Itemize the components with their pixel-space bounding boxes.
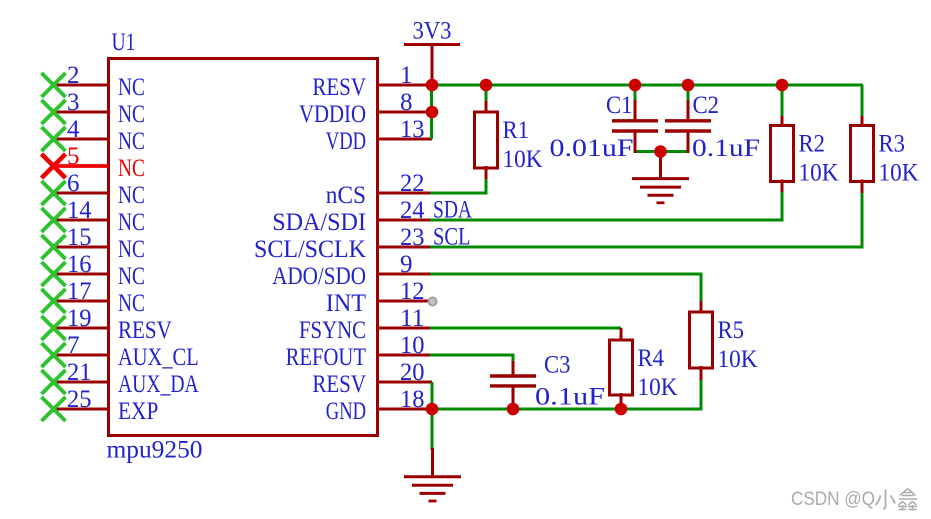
pin number 8 bbox=[400, 89, 413, 116]
label R3 bbox=[879, 131, 906, 158]
svg-text:SCL/SCLK: SCL/SCLK bbox=[254, 236, 366, 263]
resistor R4 body bbox=[610, 328, 633, 407]
pin number 20 bbox=[400, 359, 425, 386]
pin name NC bbox=[118, 101, 145, 128]
wire ADO/SDO row bbox=[430, 273, 703, 276]
svg-text:2: 2 bbox=[67, 62, 80, 89]
wire GND bottom rail bbox=[431, 408, 703, 411]
junction R2 top bbox=[776, 79, 789, 92]
no-connect X pin 5 bbox=[42, 154, 66, 178]
junction R1 top bbox=[480, 79, 493, 92]
value 10K (R5) bbox=[718, 346, 758, 373]
svg-text:NC: NC bbox=[118, 155, 145, 182]
junction C3 bottom bbox=[507, 403, 520, 416]
IC U1 mpu9250 body bbox=[109, 59, 378, 436]
svg-text:5: 5 bbox=[67, 143, 80, 170]
svg-text:VDD: VDD bbox=[326, 128, 366, 155]
svg-text:0.1uF: 0.1uF bbox=[692, 135, 760, 162]
label R4 bbox=[638, 345, 665, 372]
net label 3V3 bbox=[413, 18, 452, 45]
no-connect X pin 4 bbox=[42, 127, 66, 151]
pin 18 (GND) right wire bbox=[377, 408, 432, 411]
svg-text:3V3: 3V3 bbox=[413, 18, 452, 45]
svg-text:NC: NC bbox=[118, 128, 145, 155]
no-connect X pin 2 bbox=[42, 73, 66, 97]
watermark CSDN @Q bbox=[791, 488, 875, 510]
svg-text:7: 7 bbox=[67, 332, 80, 359]
pin number 12 bbox=[400, 278, 425, 305]
svg-text:10K: 10K bbox=[503, 146, 543, 173]
label C2 bbox=[693, 92, 720, 119]
no-connect X pin 25 bbox=[42, 397, 66, 421]
pin 1 (RESV) right wire bbox=[377, 84, 432, 87]
pin name NC bbox=[118, 209, 145, 236]
svg-text:6: 6 bbox=[67, 170, 80, 197]
pin 12 (INT) right wire bbox=[377, 300, 430, 303]
junction VDD at pin1 bbox=[426, 79, 439, 92]
svg-text:13: 13 bbox=[400, 116, 425, 143]
wire VDD top rail bbox=[431, 84, 863, 87]
pin number 24 bbox=[400, 197, 425, 224]
no-connect X pin 3 bbox=[42, 100, 66, 124]
pin number 19 bbox=[67, 305, 92, 332]
pin name RESV bbox=[118, 317, 172, 344]
capacitor C1 bbox=[612, 100, 658, 153]
pin number 3 bbox=[67, 89, 80, 116]
no-connect X pin 17 bbox=[42, 289, 66, 313]
svg-text:EXP: EXP bbox=[118, 398, 158, 425]
pin 14 (NC) left wire bbox=[52, 219, 108, 222]
wire REFOUT to C3 bbox=[430, 354, 515, 357]
label R2 bbox=[799, 131, 826, 158]
pin number 18 bbox=[400, 386, 425, 413]
svg-text:nCS: nCS bbox=[326, 182, 366, 209]
wire R1 top bbox=[485, 85, 488, 103]
label C1 bbox=[606, 92, 633, 119]
svg-text:NC: NC bbox=[118, 101, 145, 128]
svg-text:10: 10 bbox=[400, 332, 425, 359]
pin name VDD bbox=[326, 128, 366, 155]
svg-text:AUX_CL: AUX_CL bbox=[118, 344, 199, 371]
pin name NC bbox=[118, 263, 145, 290]
pin 8 (VDDIO) right wire bbox=[377, 111, 432, 114]
pin 6 (NC) left wire bbox=[52, 192, 108, 195]
pin name nCS bbox=[326, 182, 366, 209]
junction C2 top bbox=[682, 79, 695, 92]
svg-text:NC: NC bbox=[118, 263, 145, 290]
svg-text:15: 15 bbox=[67, 224, 92, 251]
svg-text:RESV: RESV bbox=[118, 317, 172, 344]
svg-text:20: 20 bbox=[400, 359, 425, 386]
wire R2 top stub bbox=[781, 85, 784, 118]
capacitor C2 bbox=[665, 100, 711, 153]
svg-text:23: 23 bbox=[400, 224, 425, 251]
svg-text:NC: NC bbox=[118, 236, 145, 263]
pin name AUX_CL bbox=[118, 344, 199, 371]
pin 5 (NC) left wire bbox=[53, 164, 108, 168]
ground symbol at pin 18 bbox=[404, 448, 461, 501]
pin name REFOUT bbox=[286, 344, 366, 371]
label C3 bbox=[544, 352, 571, 379]
svg-text:9: 9 bbox=[400, 251, 413, 278]
watermark glyph xin bbox=[898, 489, 917, 510]
pin 7 (AUX_CL) left wire bbox=[52, 354, 108, 357]
pin 21 (AUX_DA) left wire bbox=[52, 381, 108, 384]
pin number 15 bbox=[67, 224, 92, 251]
wire SCL row bbox=[430, 246, 864, 249]
svg-text:19: 19 bbox=[67, 305, 92, 332]
value 0.1uF bbox=[535, 384, 605, 411]
pin 19 (RESV) left wire bbox=[52, 327, 108, 330]
pin 25 (EXP) left wire bbox=[52, 408, 108, 411]
pin 16 (NC) left wire bbox=[52, 273, 108, 276]
pin name ADO/SDO bbox=[272, 263, 366, 290]
svg-text:mpu9250: mpu9250 bbox=[107, 437, 203, 464]
wire pin20 down bbox=[431, 382, 434, 409]
svg-text:4: 4 bbox=[67, 116, 80, 143]
no-connect X pin 21 bbox=[42, 370, 66, 394]
svg-text:NC: NC bbox=[118, 290, 145, 317]
wire R5 top vertical bbox=[700, 274, 703, 303]
svg-text:12: 12 bbox=[400, 278, 425, 305]
pin 4 (NC) left wire bbox=[52, 138, 108, 141]
pin number 7 bbox=[67, 332, 80, 359]
pin 15 (NC) left wire bbox=[52, 246, 108, 249]
svg-text:16: 16 bbox=[67, 251, 92, 278]
wire nCS to R1 bbox=[430, 192, 488, 195]
pin 3 (NC) left wire bbox=[52, 111, 108, 114]
wire R3 bottom vertical bbox=[861, 192, 864, 249]
pin name SCL/SCLK bbox=[254, 236, 366, 263]
wire R1 bottom vertical bbox=[485, 178, 488, 195]
pin 2 (NC) left wire bbox=[52, 84, 108, 87]
wire SDA row bbox=[430, 219, 784, 222]
junction at pin8 bbox=[426, 106, 439, 119]
svg-text:NC: NC bbox=[118, 182, 145, 209]
pin number 17 bbox=[67, 278, 92, 305]
svg-text:24: 24 bbox=[400, 197, 425, 224]
power symbol 3V3 bbox=[404, 45, 460, 86]
svg-text:C2: C2 bbox=[693, 92, 720, 119]
wire R3 top vertical bbox=[861, 85, 864, 118]
wire pin1-pin8-pin13 vertical bbox=[430, 85, 433, 139]
svg-text:25: 25 bbox=[67, 386, 92, 413]
wire R5 bottom vertical bbox=[700, 379, 703, 411]
pin name NC bbox=[118, 128, 145, 155]
pin number 2 bbox=[67, 62, 80, 89]
wire C2 top stub bbox=[687, 85, 690, 102]
pin name AUX_DA bbox=[118, 371, 199, 398]
label R5 bbox=[718, 317, 745, 344]
pin number 1 bbox=[400, 62, 413, 89]
no-connect X pin 14 bbox=[42, 208, 66, 232]
svg-text:17: 17 bbox=[67, 278, 92, 305]
svg-text:RESV: RESV bbox=[312, 74, 366, 101]
svg-text:0.1uF: 0.1uF bbox=[535, 384, 605, 411]
svg-text:ADO/SDO: ADO/SDO bbox=[272, 263, 366, 290]
pin number 5 bbox=[67, 143, 80, 170]
ground symbol under C1/C2 bbox=[632, 152, 689, 203]
no-connect X pin 19 bbox=[42, 316, 66, 340]
wire pin18 to ground bbox=[431, 409, 434, 450]
pin 10 (REFOUT) right wire bbox=[377, 354, 432, 357]
svg-text:R4: R4 bbox=[638, 345, 665, 372]
pin name NC bbox=[118, 290, 145, 317]
svg-text:REFOUT: REFOUT bbox=[286, 344, 366, 371]
junction at pin18 bbox=[426, 403, 439, 416]
svg-text:22: 22 bbox=[400, 170, 425, 197]
pin 22 (nCS) right wire bbox=[377, 192, 432, 195]
svg-text:U1: U1 bbox=[112, 29, 136, 56]
svg-text:14: 14 bbox=[67, 197, 92, 224]
svg-text:AUX_DA: AUX_DA bbox=[118, 371, 199, 398]
svg-text:SDA/SDI: SDA/SDI bbox=[272, 209, 366, 236]
pin number 11 bbox=[400, 305, 425, 332]
pin 20 (RESV) right wire bbox=[377, 381, 432, 384]
pin number 25 bbox=[67, 386, 92, 413]
resistor R1 body bbox=[475, 101, 498, 179]
pin 17 (NC) left wire bbox=[52, 300, 108, 303]
label R1 bbox=[503, 117, 530, 144]
value 10K (R2) bbox=[799, 160, 839, 187]
pin name FSYNC bbox=[299, 317, 366, 344]
capacitor C3 bbox=[490, 361, 536, 410]
value 10K (R3) bbox=[879, 160, 919, 187]
svg-text:0.01uF: 0.01uF bbox=[550, 135, 634, 162]
pin number 14 bbox=[67, 197, 92, 224]
svg-text:18: 18 bbox=[400, 386, 425, 413]
pin 24 (SDA/SDI) right wire bbox=[377, 219, 432, 222]
svg-text:3: 3 bbox=[67, 89, 80, 116]
pin number 4 bbox=[67, 116, 80, 143]
svg-text:10K: 10K bbox=[718, 346, 758, 373]
wire C3 top stub bbox=[512, 355, 515, 363]
pin name VDDIO bbox=[299, 101, 366, 128]
svg-text:SDA: SDA bbox=[433, 197, 472, 224]
svg-text:10K: 10K bbox=[799, 160, 839, 187]
resistor R3 body bbox=[851, 116, 874, 193]
net label SCL bbox=[433, 224, 471, 251]
wire R2 bottom vertical bbox=[781, 190, 784, 222]
wire FSYNC to R4 bbox=[430, 327, 621, 330]
svg-text:C3: C3 bbox=[544, 352, 571, 379]
junction C1/C2 ground bbox=[654, 145, 667, 158]
wire C1-C2 bottom rail bbox=[635, 150, 688, 153]
pin name SDA/SDI bbox=[272, 209, 366, 236]
resistor R2 body bbox=[771, 116, 794, 192]
svg-text:10K: 10K bbox=[879, 160, 919, 187]
value 0.1uF bbox=[692, 135, 760, 162]
pin 13 (VDD) right wire bbox=[377, 138, 432, 141]
svg-text:R1: R1 bbox=[503, 117, 530, 144]
svg-text:8: 8 bbox=[400, 89, 413, 116]
svg-text:1: 1 bbox=[400, 62, 413, 89]
pin number 13 bbox=[400, 116, 425, 143]
pin number 22 bbox=[400, 170, 425, 197]
pin name NC bbox=[118, 182, 145, 209]
pin name NC bbox=[118, 236, 145, 263]
value 10K (R1) bbox=[503, 146, 543, 173]
svg-text:10K: 10K bbox=[638, 374, 678, 401]
no-connect X pin 15 bbox=[42, 235, 66, 259]
pin number 21 bbox=[67, 359, 92, 386]
pin name NC bbox=[118, 155, 145, 182]
pin name RESV bbox=[312, 74, 366, 101]
junction C1 top bbox=[629, 79, 642, 92]
no-connect X pin 7 bbox=[42, 343, 66, 367]
svg-text:RESV: RESV bbox=[312, 371, 366, 398]
unconnected pin 12 marker bbox=[428, 297, 436, 305]
pin name INT bbox=[326, 290, 366, 317]
watermark glyph xiao bbox=[876, 490, 896, 509]
resistor R5 body bbox=[690, 301, 713, 380]
pin 9 (ADO/SDO) right wire bbox=[377, 273, 432, 276]
pin name RESV bbox=[312, 371, 366, 398]
svg-text:GND: GND bbox=[326, 398, 366, 425]
svg-text:21: 21 bbox=[67, 359, 92, 386]
svg-text:NC: NC bbox=[118, 209, 145, 236]
svg-text:C1: C1 bbox=[606, 92, 633, 119]
designator U1 bbox=[112, 29, 136, 56]
pin number 6 bbox=[67, 170, 80, 197]
pin number 10 bbox=[400, 332, 425, 359]
pin number 23 bbox=[400, 224, 425, 251]
svg-text:11: 11 bbox=[400, 305, 425, 332]
pin name NC bbox=[118, 74, 145, 101]
svg-text:INT: INT bbox=[326, 290, 366, 317]
pin name GND bbox=[326, 398, 366, 425]
svg-text:R2: R2 bbox=[799, 131, 826, 158]
value mpu9250 bbox=[107, 437, 203, 464]
pin number 9 bbox=[400, 251, 413, 278]
svg-text:R5: R5 bbox=[718, 317, 745, 344]
net label SDA bbox=[433, 197, 472, 224]
svg-text:CSDN @Q: CSDN @Q bbox=[791, 488, 875, 510]
no-connect X pin 6 bbox=[42, 181, 66, 205]
wire C1 top stub bbox=[634, 85, 637, 102]
pin 11 (FSYNC) right wire bbox=[377, 327, 432, 330]
pin name EXP bbox=[118, 398, 158, 425]
junction R4 bottom bbox=[615, 403, 628, 416]
pin 23 (SCL/SCLK) right wire bbox=[377, 246, 432, 249]
svg-text:VDDIO: VDDIO bbox=[299, 101, 366, 128]
svg-text:R3: R3 bbox=[879, 131, 906, 158]
svg-text:SCL: SCL bbox=[433, 224, 471, 251]
no-connect X pin 16 bbox=[42, 262, 66, 286]
value 10K (R4) bbox=[638, 374, 678, 401]
value 0.01uF bbox=[550, 135, 634, 162]
pin number 16 bbox=[67, 251, 92, 278]
svg-text:NC: NC bbox=[118, 74, 145, 101]
svg-text:FSYNC: FSYNC bbox=[299, 317, 366, 344]
